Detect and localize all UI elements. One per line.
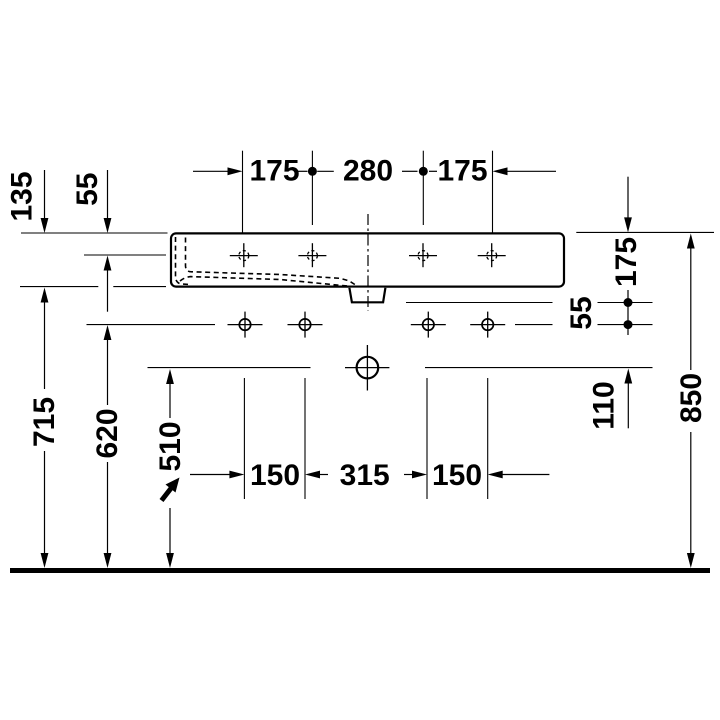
reference line: fixing hole height left <box>87 324 216 326</box>
svg-text:150: 150 <box>250 459 300 492</box>
svg-text:175: 175 <box>437 154 487 187</box>
washbasin outline <box>171 233 564 286</box>
drain trapezoid <box>349 288 385 303</box>
dimension 55 left: upper shaft and down arrow <box>107 170 109 219</box>
top dimension: dot line 2 <box>422 151 424 225</box>
top dimension line left arrow <box>193 170 228 172</box>
svg-text:55: 55 <box>565 296 598 329</box>
bottom dimension right arrow <box>488 471 503 479</box>
siphon hole <box>345 345 389 391</box>
dimension 850: up arrow at top line, shaft to floor <box>687 234 695 249</box>
top dimension: dot line 1 <box>311 151 313 225</box>
adjustability arrow (north-east) <box>162 487 173 501</box>
top dimension line segments + dots <box>298 170 308 172</box>
top dimension: extension line right <box>492 151 494 233</box>
dimension 135: upper shaft and down arrow <box>44 170 46 219</box>
dimension 620: up arrow at fixing line, shaft to floor <box>104 325 112 340</box>
reference line: y302 right <box>406 302 553 304</box>
svg-text:620: 620 <box>91 408 124 458</box>
dimension 55 left: up arrow to tap line <box>104 256 112 271</box>
reference line: siphon height left <box>148 367 311 369</box>
floor line <box>10 568 710 573</box>
fixing hole 4 <box>470 312 505 338</box>
svg-text:110: 110 <box>588 381 621 429</box>
svg-text:175: 175 <box>249 154 299 187</box>
svg-text:135: 135 <box>6 171 39 221</box>
centerline (dash-dot) through drain <box>367 214 369 311</box>
svg-text:850: 850 <box>675 373 708 423</box>
reference line: basin top extension right <box>576 231 714 233</box>
svg-text:150: 150 <box>432 459 482 492</box>
dimension 110: up arrow below siphon line <box>624 369 632 384</box>
top dimension line right arrow <box>493 167 508 175</box>
dimension 175 right: shaft and down arrow <box>627 177 629 219</box>
fixing hole 1 <box>228 312 263 338</box>
dimension 55 right: dot line and dots <box>627 290 629 335</box>
tap hole crosshair 1 <box>230 243 258 267</box>
basin interior hidden profile (dashed) left inner wall <box>186 238 358 287</box>
svg-text:175: 175 <box>610 237 643 287</box>
reference line: fixing hole height right <box>515 324 553 326</box>
reference line: tap hole height left <box>84 254 166 256</box>
basin interior hidden profile (dashed) lower slope <box>180 277 349 287</box>
svg-text:715: 715 <box>28 397 61 447</box>
tap hole crosshair 4 <box>478 243 506 267</box>
basin interior hidden profile (dashed) left outer wall <box>176 237 191 285</box>
fixing hole 3 <box>411 312 446 338</box>
fixing hole 2 <box>288 312 323 338</box>
svg-text:55: 55 <box>71 173 104 206</box>
tap hole crosshair 2 <box>298 243 326 267</box>
reference line: basin bottom extension left <box>20 286 98 288</box>
bottom dimension line left arrow <box>190 474 230 476</box>
svg-text:510: 510 <box>154 421 187 471</box>
bottom dimension arrows around 315 <box>305 471 320 479</box>
bottom dimension 150/315/150: extension lines <box>243 378 245 499</box>
dimension 715: up arrow at basin bottom, shaft to floor <box>41 288 49 303</box>
reference line: basin top extension left <box>21 232 168 234</box>
reference line: siphon height right <box>425 367 653 369</box>
svg-text:315: 315 <box>340 459 390 492</box>
dimension 510: up arrow at siphon line, shaft to floor <box>166 369 174 384</box>
tap hole crosshair 3 <box>409 243 437 267</box>
top dimension 175/280/175: extension line left <box>242 151 244 233</box>
svg-text:280: 280 <box>343 154 393 187</box>
